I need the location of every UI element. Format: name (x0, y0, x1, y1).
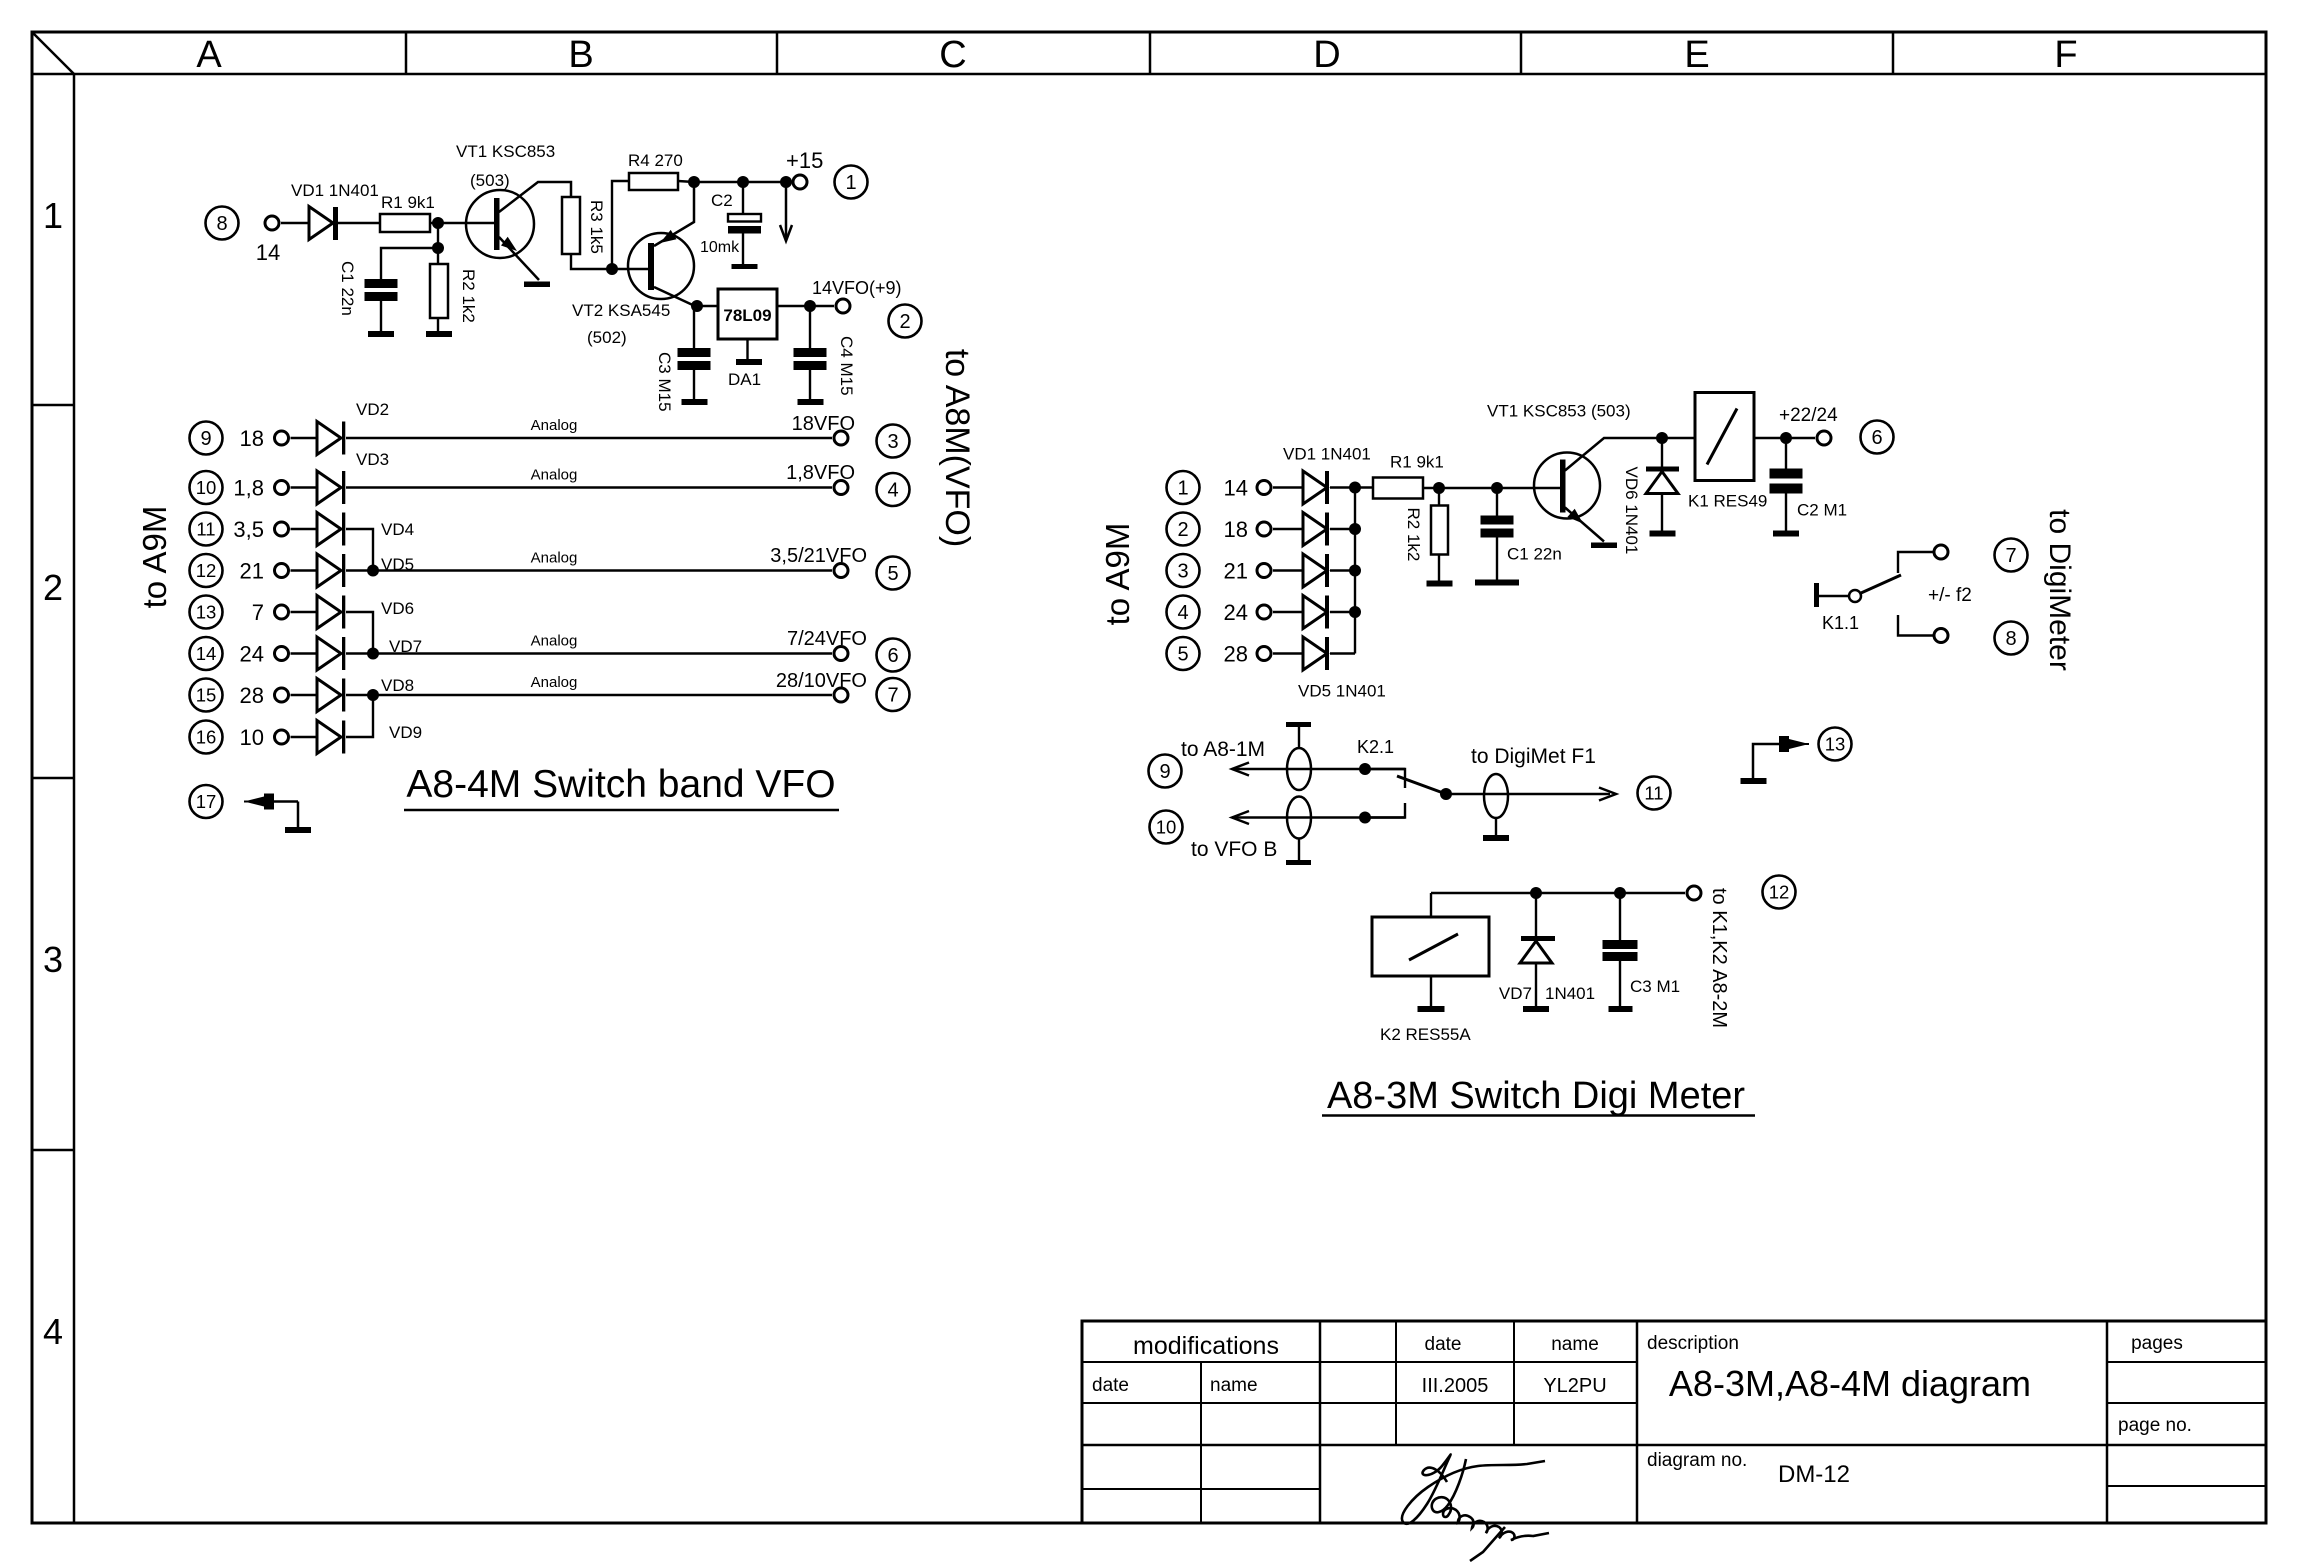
VD9-VD8 link (346, 695, 373, 737)
VD5 output stub (1330, 652, 1355, 654)
wire to VD6 (291, 611, 318, 613)
svg-text:VD9: VD9 (389, 723, 422, 742)
wire R4 to +15 rail (678, 181, 694, 182)
wire to VD7 (291, 652, 318, 654)
svg-text:C2: C2 (711, 191, 733, 210)
svg-text:1: 1 (43, 195, 63, 236)
R4 left leg wire (612, 181, 629, 269)
svg-text:+15: +15 (786, 148, 823, 173)
terminal 3 (band 21) (1167, 554, 1200, 587)
output wire 18VFO (346, 437, 832, 439)
row separators (32, 404, 74, 407)
svg-text:2: 2 (899, 311, 910, 333)
wire to VD4 (1273, 611, 1303, 613)
svg-text:R1 9k1: R1 9k1 (1390, 453, 1444, 472)
terminal 8 to DigiMeter (1995, 622, 2028, 655)
terminal 14 (band 24) (190, 637, 223, 670)
svg-text:VD6: VD6 (381, 599, 414, 618)
svg-text:III.2005: III.2005 (1422, 1375, 1489, 1397)
column separators (405, 32, 408, 74)
svg-text:to A8M(VFO): to A8M(VFO) (938, 349, 976, 547)
svg-text:DM-12: DM-12 (1778, 1461, 1850, 1488)
svg-text:7: 7 (887, 685, 898, 707)
relay coil K1 RES49 (1695, 393, 1754, 481)
VD6-VD7 link (346, 612, 373, 654)
VD4-VD5 link (346, 529, 373, 571)
svg-text:to DigiMet F1: to DigiMet F1 (1471, 745, 1596, 768)
terminal 6 (7/24VFO) (834, 647, 848, 661)
resistor R3 1k5 (562, 197, 580, 254)
svg-text:VD8: VD8 (381, 676, 414, 695)
diode VD5 1N401 (1303, 637, 1327, 670)
svg-text:VD1 1N401: VD1 1N401 (291, 181, 379, 200)
svg-text:24: 24 (1224, 600, 1248, 625)
terminal 5 (3,5/21VFO) (834, 564, 848, 578)
svg-text:Analog: Analog (531, 467, 578, 484)
svg-text:K2 RES55A: K2 RES55A (1380, 1025, 1471, 1044)
relay coil K2 RES55A (1430, 893, 1432, 917)
wire to VD1 (1273, 486, 1303, 488)
svg-text:13: 13 (1825, 734, 1846, 755)
svg-text:2: 2 (1177, 519, 1188, 541)
svg-text:VT1 KSC853 (503): VT1 KSC853 (503) (1487, 402, 1631, 421)
svg-text:to DigiMeter: to DigiMeter (2043, 509, 2076, 671)
svg-text:6: 6 (887, 645, 898, 667)
transistor VT2 KSA545 (628, 233, 694, 299)
resistor R1 9k1 (380, 214, 430, 232)
VT2 emitter from rail (654, 182, 694, 246)
svg-text:+22/24: +22/24 (1779, 405, 1838, 426)
diode bus vertical (1354, 488, 1356, 654)
terminal 1 (band 14) (1167, 471, 1200, 504)
svg-text:1: 1 (845, 172, 856, 194)
svg-text:18VFO: 18VFO (792, 413, 855, 435)
svg-text:C3 M1: C3 M1 (1630, 977, 1680, 996)
wire VD1 to R1 (338, 222, 380, 224)
capacitor C2 M1 right (1785, 438, 1787, 469)
svg-text:C1 22n: C1 22n (1507, 545, 1562, 564)
diode VD4 1N401 (1303, 596, 1327, 629)
terminal 15 (band 28) (190, 679, 223, 712)
svg-text:3,5: 3,5 (233, 517, 264, 542)
terminal 13 ground arrow (1741, 778, 1767, 784)
svg-text:21: 21 (1224, 559, 1248, 584)
svg-text:10: 10 (196, 477, 217, 498)
svg-text:VT2 KSA545: VT2 KSA545 (572, 301, 670, 320)
line 9 wire with arrow (1232, 768, 1405, 770)
svg-text:diagram no.: diagram no. (1647, 1450, 1747, 1471)
svg-text:D: D (1313, 34, 1340, 76)
output wire 28/10VFO (346, 694, 832, 696)
terminal 9 (band 18) (190, 422, 223, 455)
capacitor C4 M15 (809, 306, 811, 348)
VD2 output stub (1330, 528, 1355, 530)
svg-text:3,5/21VFO: 3,5/21VFO (770, 545, 867, 567)
svg-text:B: B (568, 34, 593, 76)
svg-text:4: 4 (43, 1311, 63, 1352)
resistor R4 270 (629, 173, 678, 190)
svg-text:name: name (1551, 1334, 1599, 1355)
svg-text:VD5 1N401: VD5 1N401 (1298, 682, 1386, 701)
feedthrough cap output (1484, 774, 1508, 818)
corner diagonal (33, 33, 74, 74)
svg-text:28: 28 (1224, 642, 1248, 667)
terminal 17 ground arrow (190, 785, 223, 818)
svg-text:28/10VFO: 28/10VFO (776, 670, 867, 692)
svg-text:modifications: modifications (1133, 1332, 1279, 1360)
terminal 10 (to VFO B) (1150, 811, 1183, 844)
svg-text:A: A (196, 34, 222, 76)
svg-text:K1 RES49: K1 RES49 (1688, 492, 1767, 511)
svg-text:1: 1 (1177, 478, 1188, 500)
capacitor C1 22n right (1496, 488, 1498, 516)
title block outer (1082, 1321, 2266, 1523)
svg-text:date: date (1425, 1334, 1462, 1355)
wire to VD5 (291, 569, 318, 571)
supply arrow down (785, 182, 788, 240)
svg-text:18: 18 (240, 426, 264, 451)
svg-text:E: E (1684, 34, 1709, 76)
svg-text:8: 8 (2005, 628, 2016, 650)
svg-text:4: 4 (1177, 602, 1188, 624)
terminal 13 (band 7) (190, 596, 223, 629)
svg-text:A8-3M,A8-4M diagram: A8-3M,A8-4M diagram (1669, 1363, 2031, 1404)
node R1/C1/R2 (437, 223, 439, 248)
switch K2.1 blade (1397, 776, 1446, 794)
diode VD8 (317, 679, 341, 712)
VD3 output stub (1330, 569, 1355, 571)
svg-text:to A9M: to A9M (136, 506, 173, 609)
svg-text:7/24VFO: 7/24VFO (787, 628, 867, 650)
flyback diode VD7 1N401 (1535, 893, 1537, 937)
row-label strip line (73, 74, 76, 1523)
VD4 output stub (1330, 611, 1355, 613)
header band line (32, 73, 2266, 76)
diode VD3 (317, 471, 341, 504)
svg-text:1,8: 1,8 (233, 476, 264, 501)
svg-text:18: 18 (1224, 517, 1248, 542)
svg-text:Analog: Analog (531, 417, 578, 434)
diode VD2 (317, 422, 341, 455)
wire K1 to +22/24 (1754, 437, 1815, 439)
svg-text:15: 15 (196, 685, 217, 706)
capacitor C3 M15 (693, 306, 695, 348)
svg-text:K2.1: K2.1 (1357, 737, 1394, 757)
svg-text:14: 14 (196, 643, 217, 664)
svg-text:12: 12 (196, 560, 217, 581)
terminal 4 (band 24) (1167, 596, 1200, 629)
svg-text:4: 4 (887, 480, 898, 502)
terminal 7 (28/10VFO) (834, 688, 848, 702)
diode VD9 (317, 721, 341, 754)
VT1 right emitter (1565, 508, 1604, 542)
svg-text:5: 5 (887, 563, 898, 585)
wire to VD2 (1273, 528, 1303, 530)
wire R1 to VT1 base (430, 222, 494, 224)
terminal 11 (band 3,5) (190, 513, 223, 546)
terminal 12 (band 21) (190, 554, 223, 587)
svg-text:14VFO(+9): 14VFO(+9) (812, 278, 902, 298)
wire node to C1 (381, 248, 438, 279)
svg-text:9: 9 (200, 428, 211, 450)
svg-text:5: 5 (1177, 644, 1188, 666)
svg-text:10mk: 10mk (700, 239, 740, 256)
svg-text:to A9M: to A9M (1099, 523, 1136, 626)
svg-text:date: date (1092, 1375, 1129, 1396)
voltage regulator DA1 78L09 (718, 289, 777, 339)
svg-text:14: 14 (256, 240, 280, 265)
svg-text:VD4: VD4 (381, 520, 414, 539)
svg-text:R3 1k5: R3 1k5 (587, 200, 606, 254)
svg-text:7: 7 (252, 600, 264, 625)
terminal 16 (band 10) (190, 721, 223, 754)
output wire 7/24VFO (346, 652, 832, 654)
VT1 right collector wire (1565, 438, 1662, 471)
svg-text:3: 3 (1177, 561, 1188, 583)
title block horizontals (1082, 1361, 1637, 1363)
svg-text:11: 11 (196, 519, 215, 540)
svg-text:(503): (503) (470, 171, 510, 190)
wire to VD5 (1273, 652, 1303, 654)
svg-text:8: 8 (216, 213, 227, 235)
svg-text:VD1 1N401: VD1 1N401 (1283, 445, 1371, 464)
capacitor C2 10mk (742, 182, 744, 214)
+15 rail (694, 181, 791, 183)
terminal 1 (+15) (793, 175, 807, 189)
svg-text:A8-4M Switch band VFO: A8-4M Switch band VFO (406, 763, 835, 806)
svg-text:3: 3 (887, 431, 898, 453)
svg-text:10: 10 (1156, 817, 1177, 838)
capacitor C1 22n (365, 279, 398, 288)
svg-text:VD2: VD2 (356, 400, 389, 419)
svg-text:1,8VFO: 1,8VFO (786, 462, 855, 484)
svg-text:C2 M1: C2 M1 (1797, 501, 1847, 520)
wire to VD2 (291, 437, 318, 439)
svg-text:(502): (502) (587, 328, 627, 347)
svg-text:13: 13 (196, 602, 217, 623)
wire term8 to VD1 (281, 222, 309, 224)
svg-text:VD3: VD3 (356, 450, 389, 469)
K2.1 throw 9 (1359, 763, 1371, 775)
svg-text:Analog: Analog (531, 674, 578, 691)
transistor VT1 KSC853 (466, 190, 534, 258)
terminal 2 (14VFO+9) (836, 299, 850, 313)
wire to VD3 (1273, 569, 1303, 571)
svg-text:2: 2 (43, 567, 63, 608)
svg-text:VT1 KSC853: VT1 KSC853 (456, 142, 555, 161)
output wire 3,5/21VFO (346, 569, 832, 571)
terminal 8 (input 14) (206, 207, 239, 240)
svg-text:6: 6 (1871, 427, 1882, 449)
terminal 4 (1,8VFO) (834, 481, 848, 495)
output wire to DigiMet F1 (1446, 793, 1610, 795)
svg-text:+/- f2: +/- f2 (1928, 585, 1972, 606)
terminal 10 (band 1,8) (190, 471, 223, 504)
diode VD4 (317, 513, 341, 546)
svg-text:C4 M15: C4 M15 (837, 336, 856, 396)
diode VD3 1N401 (1303, 554, 1327, 587)
diode VD5 (317, 554, 341, 587)
terminal 11 (1638, 777, 1671, 810)
capacitor C3 M1 (1619, 893, 1621, 940)
svg-text:16: 16 (196, 727, 217, 748)
svg-text:11: 11 (1644, 783, 1663, 804)
svg-text:VD7: VD7 (1499, 984, 1532, 1003)
terminal 3 (18VFO) (834, 431, 848, 445)
svg-text:page no.: page no. (2118, 1415, 2192, 1436)
terminal 12 (to K1,K2 A8-2M) (1687, 886, 1701, 900)
svg-text:description: description (1647, 1333, 1739, 1354)
svg-text:K1.1: K1.1 (1822, 613, 1859, 633)
svg-text:14: 14 (1224, 476, 1248, 501)
resistor R2 1k2 (437, 248, 439, 264)
svg-text:28: 28 (240, 683, 264, 708)
svg-text:YL2PU: YL2PU (1543, 1375, 1606, 1397)
svg-text:Analog: Analog (531, 550, 578, 567)
title block verticals (1200, 1362, 1202, 1523)
svg-text:R4 270: R4 270 (628, 151, 683, 170)
svg-text:Analog: Analog (531, 633, 578, 650)
terminal 5 (band 28) (1167, 637, 1200, 670)
output wire 1,8VFO (346, 486, 832, 488)
wire R3 to VT2 base node (571, 254, 648, 269)
diode VD2 1N401 (1303, 513, 1327, 546)
svg-text:24: 24 (240, 642, 264, 667)
svg-text:pages: pages (2131, 1333, 2183, 1354)
wire to VD8 (291, 694, 318, 696)
diode VD6 (317, 596, 341, 629)
svg-text:17: 17 (196, 791, 217, 812)
VD1 output stub (1330, 486, 1355, 488)
svg-text:9: 9 (1159, 761, 1170, 783)
resistor R1 9k1 right (1373, 478, 1423, 499)
diode VD1 1N401 (309, 207, 333, 240)
svg-text:3: 3 (43, 939, 63, 980)
VT1 collector wire (499, 182, 571, 212)
switch K1.1 (1814, 583, 1819, 607)
svg-text:C1 22n: C1 22n (338, 261, 357, 316)
svg-text:R2 1k2: R2 1k2 (459, 269, 478, 323)
svg-text:12: 12 (1769, 882, 1790, 903)
wire VD6 node to K1 (1662, 437, 1695, 439)
svg-text:to VFO B: to VFO B (1191, 838, 1277, 861)
svg-text:VD6 1N401: VD6 1N401 (1622, 467, 1641, 555)
svg-text:to A8-1M: to A8-1M (1181, 738, 1265, 761)
resistor R2 1k2 right (1438, 488, 1440, 506)
VT1 emitter to ground (499, 237, 539, 280)
terminal 7 to DigiMeter (1995, 539, 2028, 572)
svg-text:DA1: DA1 (728, 370, 761, 389)
svg-text:A8-3M Switch Digi Meter: A8-3M Switch Digi Meter (1327, 1075, 1745, 1117)
diode VD1 1N401 (1303, 471, 1327, 504)
svg-text:10: 10 (240, 725, 264, 750)
terminal 9 (to A8-1M) (1149, 755, 1182, 788)
svg-text:R1 9k1: R1 9k1 (381, 193, 435, 212)
wire to VD4 (291, 528, 318, 530)
svg-text:name: name (1210, 1375, 1258, 1396)
svg-text:7: 7 (2005, 545, 2016, 567)
transistor VT1 KSC853 right (1534, 453, 1600, 519)
K2.1 throw 10 (1359, 812, 1371, 824)
signature (1402, 1454, 1545, 1523)
wire R1 to base (1423, 487, 1560, 489)
svg-text:to K1,K2 A8-2M: to K1,K2 A8-2M (1708, 888, 1730, 1028)
wire 78L09 out (777, 305, 834, 307)
feedthrough cap line9 (1287, 748, 1311, 790)
svg-text:C: C (939, 34, 966, 76)
wire to VD9 (291, 736, 318, 738)
svg-text:21: 21 (240, 559, 264, 584)
terminal 2 (band 18) (1167, 513, 1200, 546)
wire bus to R1 (1355, 486, 1373, 488)
feedthrough cap line10 (1287, 797, 1311, 839)
flyback diode VD6 1N401 (1661, 438, 1663, 468)
diode VD7 (317, 637, 341, 670)
VT2 collector wire (654, 287, 697, 307)
svg-text:1N401: 1N401 (1545, 984, 1595, 1003)
svg-text:78L09: 78L09 (723, 306, 771, 325)
svg-text:C3 M15: C3 M15 (655, 352, 674, 412)
line 10 wire with arrow (1232, 816, 1405, 818)
svg-text:F: F (2054, 34, 2077, 76)
terminal 6 (+22/24) (1817, 431, 1831, 445)
K2 supply wire (1431, 892, 1685, 894)
wire to VD3 (291, 486, 318, 488)
svg-text:R2 1k2: R2 1k2 (1404, 508, 1423, 562)
